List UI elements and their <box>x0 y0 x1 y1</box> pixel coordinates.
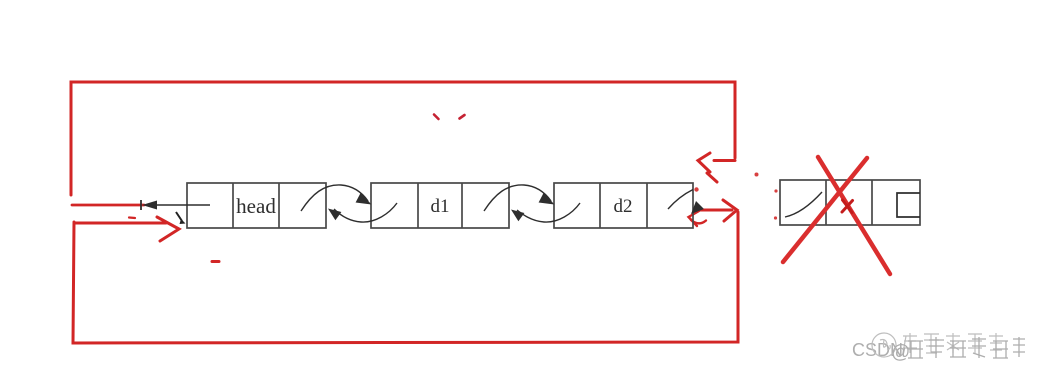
red X crossing deleted node <box>783 157 890 274</box>
main layer glyphs <box>891 337 1025 363</box>
red speck dots near erased arcs <box>694 173 777 220</box>
ghost layer glyphs <box>872 333 1003 357</box>
svg-text:head: head <box>236 194 276 218</box>
wire deleted node next bracket <box>897 193 920 217</box>
watermark CSDN <box>852 333 1025 363</box>
wire red line into head prev <box>72 204 144 207</box>
wire red arrow pointing right at d2 next <box>694 200 737 221</box>
red dash below head box <box>212 260 219 263</box>
node d1 box <box>371 183 509 228</box>
wire red top loop (head prev to d2) <box>71 82 735 195</box>
svg-text:d1: d1 <box>431 196 450 217</box>
node deleted box <box>780 180 920 225</box>
wire red small arrow at d2 lower-right <box>689 211 707 226</box>
red dash left of head arrow <box>129 216 135 219</box>
wire d2 next curve stub <box>668 190 693 210</box>
small black tick near head lower-left <box>176 212 186 224</box>
wire arc d1 next to d2 <box>484 185 554 211</box>
wire arc d1 prev to head <box>328 203 397 222</box>
svg-text:d2: d2 <box>614 196 633 217</box>
wire arc d2 prev to d1 <box>511 203 580 222</box>
red dash mark pair above diagram <box>434 115 465 120</box>
svg-text:@: @ <box>891 342 910 363</box>
wire red arrow into head lower-left <box>75 217 179 241</box>
wire deleted node prev curve stub <box>785 192 822 217</box>
wire arc head next to d1 <box>301 185 371 211</box>
red x inside deleted node middle cell <box>842 200 853 213</box>
wire red bottom loop (d2 next to head) <box>73 212 738 343</box>
wire head prev pointer to left <box>141 200 210 210</box>
node head box <box>187 183 326 228</box>
black arrowhead at d2 right edge <box>691 201 704 214</box>
node d2 box <box>554 183 693 228</box>
